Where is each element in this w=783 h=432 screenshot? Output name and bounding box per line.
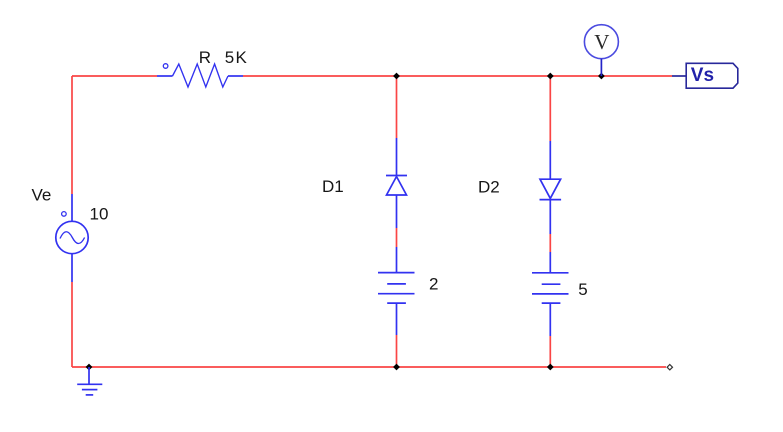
- svg-text:Vs: Vs: [691, 65, 714, 86]
- diode D1: [386, 138, 407, 228]
- svg-text:D2: D2: [478, 178, 500, 197]
- wire left vertical upper: [71, 76, 73, 194]
- junction node ground: [86, 364, 93, 371]
- voltmeter U1: [584, 25, 618, 76]
- svg-text:10: 10: [90, 205, 109, 224]
- wire D2 branch top: [549, 76, 551, 141]
- voltage source Ve: [56, 194, 88, 282]
- resistor R 5K: [157, 64, 243, 87]
- battery 5 (D2 branch): [532, 252, 569, 336]
- wire D1 branch bottom: [396, 335, 398, 367]
- wire left vertical lower: [71, 282, 73, 367]
- svg-text:2: 2: [429, 274, 438, 293]
- wire D2 branch bottom: [549, 336, 551, 367]
- wire top-left horizontal (node A): [72, 75, 157, 77]
- svg-text:5K: 5K: [225, 48, 248, 67]
- junction node top D1: [393, 73, 400, 80]
- svg-text:V: V: [594, 30, 609, 54]
- wire D2 branch middle: [549, 234, 551, 252]
- junction node top D2: [547, 73, 554, 80]
- wire top middle (resistor to node Vs): [243, 75, 672, 77]
- open terminal (output node): [667, 365, 672, 370]
- svg-text:5: 5: [578, 280, 587, 299]
- junction node bottom D2: [547, 364, 554, 371]
- wire D1 branch middle: [396, 228, 398, 247]
- wire bottom horizontal: [72, 366, 666, 368]
- svg-text:R: R: [199, 48, 211, 67]
- svg-text:D1: D1: [322, 177, 344, 196]
- wire D1 branch top: [396, 76, 398, 138]
- battery 2 (D1 branch): [378, 247, 415, 335]
- svg-text:Ve: Ve: [32, 186, 52, 205]
- diode D2: [540, 141, 562, 234]
- junction node bottom D1: [393, 364, 400, 371]
- terminal label Vs: [686, 63, 738, 88]
- wire navy to terminal Vs: [672, 75, 686, 77]
- ground: [77, 367, 102, 395]
- junction node voltmeter: [598, 73, 605, 80]
